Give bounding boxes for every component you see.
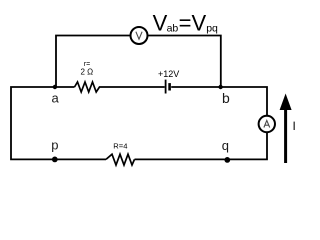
svg-text:q: q — [222, 138, 229, 153]
svg-text:+12V: +12V — [158, 69, 179, 79]
svg-text:b: b — [222, 90, 230, 106]
svg-text:R=4: R=4 — [113, 142, 127, 151]
svg-text:p: p — [51, 138, 58, 153]
svg-text:a: a — [52, 90, 60, 105]
svg-text:2 Ω: 2 Ω — [80, 68, 93, 77]
